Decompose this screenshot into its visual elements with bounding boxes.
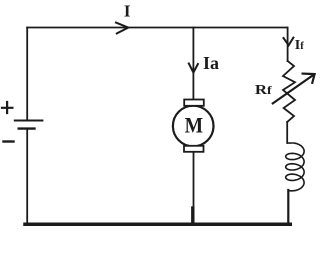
svg-text:If: If [295, 37, 305, 52]
svg-text:M: M [185, 112, 204, 137]
svg-text:I: I [124, 2, 131, 21]
svg-text:Ia: Ia [203, 53, 219, 73]
svg-text:Rf: Rf [255, 83, 272, 98]
